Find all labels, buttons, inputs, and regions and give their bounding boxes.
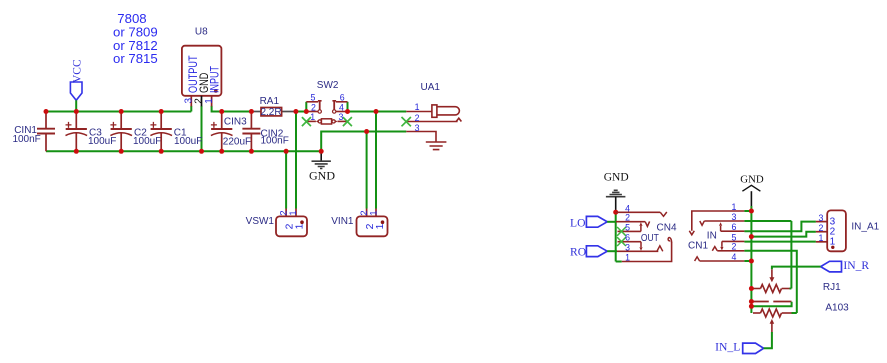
CN4 pin1 line + riser + crook [622, 242, 672, 262]
potentiometer RJ1 A103 (dual gang) [753, 269, 849, 332]
RJ1 top gang resistor [753, 288, 761, 290]
junction dot ground rail / C2 [119, 149, 124, 154]
svg-text:3: 3 [338, 112, 343, 122]
svg-text:2: 2 [278, 210, 288, 215]
svg-text:3: 3 [415, 123, 420, 133]
svg-text:SW2: SW2 [317, 80, 339, 91]
wire: RA1 right gray lead [282, 111, 296, 113]
svg-text:INPUT: INPUT [207, 66, 221, 93]
CN1 pin5 line + switch arrow to pin2 [722, 240, 745, 242]
junction dot ground rail / GND symbol [319, 149, 324, 154]
wire: RO to CN4 pin3 [607, 250, 617, 252]
switch SW2 [302, 80, 352, 126]
svg-text:6: 6 [340, 93, 345, 103]
junction dot bus / top pot left [749, 286, 754, 291]
svg-text:U8: U8 [195, 27, 208, 38]
voltage regulator U8 [182, 27, 222, 107]
svg-text:RO: RO [570, 245, 586, 258]
wire: U8 pin1 drop + input rail to RA1 [212, 106, 251, 112]
svg-text:100uF: 100uF [174, 136, 202, 147]
svg-text:CIN3: CIN3 [224, 117, 247, 128]
wire: CN4 ground bus vertical [615, 212, 617, 262]
junction dot ground rail / CIN2 [249, 149, 254, 154]
svg-text:IN_R: IN_R [843, 259, 869, 272]
svg-text:GND: GND [740, 173, 764, 185]
global label LO [570, 216, 607, 229]
connector IN_A1 [816, 210, 880, 251]
svg-text:3: 3 [625, 242, 630, 252]
SW2 pin5 lead + green corner [305, 102, 307, 112]
wire: IN_R to top wiper [772, 267, 821, 270]
CN1 pin1 line + drop + hook [692, 211, 745, 231]
svg-text:2.2R: 2.2R [260, 107, 281, 118]
CN4 pin3 line + hook [617, 250, 658, 252]
SW2 row 1-3 shorting element [306, 120, 316, 122]
junction dot input rail / CIN2 [249, 109, 254, 114]
RJ1 bottom wiper arrow [771, 323, 773, 332]
svg-text:2: 2 [819, 223, 824, 233]
svg-text:1: 1 [369, 210, 379, 215]
wire: IN_L to bottom wiper [764, 332, 772, 348]
svg-text:GND: GND [604, 172, 629, 184]
svg-text:220uF: 220uF [223, 137, 251, 148]
svg-text:LO: LO [570, 216, 585, 229]
RJ1 gang dashed link [753, 301, 792, 303]
svg-text:VIN1: VIN1 [331, 216, 354, 227]
SW2 no-connect X pin1 [302, 117, 311, 126]
wire: U8 pin2 drop to ground rail [201, 106, 203, 152]
junction dot output rail / C3+VCC [74, 109, 79, 114]
ground symbol GND above CN1 (open triangle) [740, 173, 764, 212]
RJ1 bottom gang resistor [753, 312, 761, 314]
svg-text:5: 5 [310, 93, 315, 103]
wire: CN1 pin5 to IN_A1 pin1 [744, 241, 816, 243]
capacitor C2 100uF (polarized) [110, 112, 161, 152]
svg-text:100uF: 100uF [133, 136, 161, 147]
svg-text:5: 5 [625, 222, 630, 232]
connector VIN1 [331, 209, 387, 237]
svg-text:1: 1 [732, 202, 737, 212]
wire: CN1 pin4 green stub [744, 260, 751, 262]
global label RO [570, 245, 607, 258]
connector UA1 (barrel jack) [402, 82, 462, 150]
junction dot CN1 bus / pin4 [749, 259, 754, 264]
wire: bottom pot right lead join [792, 312, 797, 314]
junction dot output rail / CIN1 [44, 109, 49, 114]
junction dot RA1 out / VSW1 riser [293, 109, 298, 114]
svg-text:VCC: VCC [71, 59, 83, 83]
UA1 pin1 stub + tip contact [406, 111, 432, 113]
junction dot ground rail / U8 pin2 [199, 149, 204, 154]
svg-text:3: 3 [732, 212, 737, 222]
svg-text:IN: IN [707, 230, 717, 241]
global label IN_L [715, 341, 763, 354]
wire: VSW1 pin2 riser (ground) [285, 151, 287, 208]
svg-text:UA1: UA1 [421, 82, 441, 93]
svg-text:GND: GND [309, 169, 335, 183]
CN1 pin3 line + hook [704, 220, 744, 222]
svg-text:6: 6 [732, 222, 737, 232]
svg-text:1: 1 [625, 253, 630, 263]
junction dot UA1 pin3 wire / VIN1 pin2 riser [364, 129, 369, 134]
SW2 right actuator bar 6-4 [332, 100, 336, 102]
svg-text:6: 6 [625, 233, 630, 243]
wire: RA1 out to SW2 left [296, 111, 306, 113]
svg-text:2: 2 [732, 242, 737, 252]
junction dot ground rail / C3 [74, 149, 79, 154]
SW2 left actuator bar 5-2 [318, 100, 322, 102]
resistor RA1 2.2R [260, 96, 282, 118]
wire: CN4 pin1 green corner [616, 261, 622, 263]
wire: CN1 pin1 green stub [744, 210, 751, 212]
svg-text:CN1: CN1 [688, 240, 708, 251]
junction dot input rail / CIN3 [219, 109, 224, 114]
wire: U8 pin3 drop to output rail [190, 106, 192, 112]
junction dot ground rail / C1 [159, 149, 164, 154]
SW2 pin6 lead + green corner [347, 102, 349, 112]
wire: VIN1 pin1 riser [375, 112, 377, 209]
CN1 pin6 line + switch arrow to pin3 [721, 230, 745, 232]
SW2 no-connect X pin3 [343, 117, 352, 126]
connector CN4 [616, 203, 677, 262]
svg-text:100nF: 100nF [12, 134, 40, 145]
wire: ground rail (bottom left) [46, 150, 321, 152]
junction dot CN1 bus / pin1 [749, 209, 754, 214]
UA1 pin3 lead to local ground [406, 132, 436, 142]
svg-text:1: 1 [204, 98, 215, 104]
svg-text:1: 1 [819, 233, 824, 243]
capacitor CIN1 100nF [12, 112, 55, 152]
svg-text:4: 4 [339, 103, 344, 113]
junction dot output rail / C1 [159, 109, 164, 114]
wire: VIN1 pin2 riser [366, 132, 368, 209]
CN4 no-connect X pin5 [617, 227, 626, 236]
capacitor CIN3 220uF (polarized) [211, 112, 251, 152]
CN4 pin4 line + hook [616, 211, 660, 213]
wire: LO to CN4 pin2 [607, 221, 616, 223]
SW2 pin4 stub [336, 111, 348, 113]
svg-text:2: 2 [415, 113, 420, 123]
svg-text:1: 1 [415, 102, 420, 112]
svg-text:IN_L: IN_L [715, 341, 740, 354]
junction dot ground rail / VSW1 pin2 [284, 149, 289, 154]
svg-text:4: 4 [732, 252, 737, 262]
capacitor CIN2 100nF [242, 112, 288, 152]
capacitor C3 100uF (polarized) [66, 112, 117, 152]
connector VSW1 [246, 209, 307, 237]
RJ1 top wiper arrow [771, 269, 773, 278]
junction dot CN1 bus / IN_A1 pin2 gnd wire [749, 234, 754, 239]
wire: gang link to ground bus [751, 302, 791, 307]
wire: RA1 left gray lead [251, 111, 261, 113]
svg-text:100nF: 100nF [261, 136, 289, 147]
svg-text:100uF: 100uF [88, 136, 116, 147]
svg-text:1: 1 [375, 223, 386, 229]
svg-text:OUT: OUT [641, 233, 659, 244]
CN1 pin4 line + hook [700, 260, 745, 262]
svg-text:RJ1: RJ1 [823, 282, 841, 293]
wire: CN1 pin3 across to pot riser [744, 220, 791, 222]
svg-text:2: 2 [194, 98, 205, 104]
connector CN1 [688, 202, 744, 262]
wire: ground up-and-over to UA1 pin3 [321, 132, 406, 152]
CN1 pin2 line + hook [717, 250, 744, 252]
svg-text:A103: A103 [825, 302, 849, 313]
wire: pot riser V1 down to RJ1 top right [790, 221, 792, 289]
power flag VCC [70, 59, 83, 111]
CN4 pin2 line + hook [616, 221, 645, 223]
svg-text:2: 2 [625, 213, 630, 223]
svg-text:1: 1 [288, 210, 298, 215]
free text 7808 alternatives [113, 11, 158, 66]
svg-text:RA1: RA1 [260, 96, 280, 107]
ground symbol GND above CN4 (inverted earth bars) [604, 172, 629, 212]
junction dot bus / gang gnd link [749, 304, 754, 309]
svg-text:1: 1 [310, 112, 315, 122]
junction dot SW2 pin4 node [345, 109, 350, 114]
wire: VSW1 pin1 riser (RA1 node down) [295, 112, 297, 209]
UA1 no-connect X pin2 [402, 117, 411, 126]
CN4 pin6 line + switch arrow to pin3 [618, 241, 642, 243]
wire: CN1 ground bus vertical down to RJ1 [750, 212, 752, 313]
svg-text:2: 2 [359, 210, 369, 215]
wire: VCC output rail (top left) [46, 111, 191, 113]
svg-text:1: 1 [294, 223, 305, 229]
junction dot CN4 gnd / pin4 [613, 210, 618, 215]
wire: SW2 right to UA1 pin1 [348, 111, 407, 113]
CN4 no-connect X pin6 [617, 237, 626, 246]
junction dot bus / gang dash [749, 299, 754, 304]
svg-text:VSW1: VSW1 [246, 216, 275, 227]
junction dot ground rail / CIN3 [219, 149, 224, 154]
junction dot SW2 pin2 node [304, 109, 309, 114]
wire: CN1 pin6 to IN_A1 pin3 (jog up) [744, 222, 816, 232]
svg-text:2: 2 [311, 103, 316, 113]
capacitor C1 100uF (polarized) [150, 112, 202, 152]
CN4 pin5 line + switch arrow to pin2 [618, 230, 641, 232]
svg-text:3: 3 [819, 213, 824, 223]
wire: CN1 pin2 across + riser down to RJ1 bottom right [744, 251, 796, 313]
ground symbol GND (left, earth bars) [309, 151, 335, 182]
junction dot VIN1 pin1 riser [374, 109, 379, 114]
junction dot output rail / C2 [119, 109, 124, 114]
global label IN_R [821, 259, 870, 272]
wire: IN_A1 pin2 to ground bus (jog) [751, 232, 816, 237]
svg-text:CN4: CN4 [657, 223, 677, 234]
svg-text:or 7815: or 7815 [113, 51, 158, 66]
SW2 pin2 stub [306, 111, 318, 113]
UA1 pin2 sleeve line + chevron [407, 121, 458, 123]
svg-text:IN_A1: IN_A1 [851, 221, 879, 232]
